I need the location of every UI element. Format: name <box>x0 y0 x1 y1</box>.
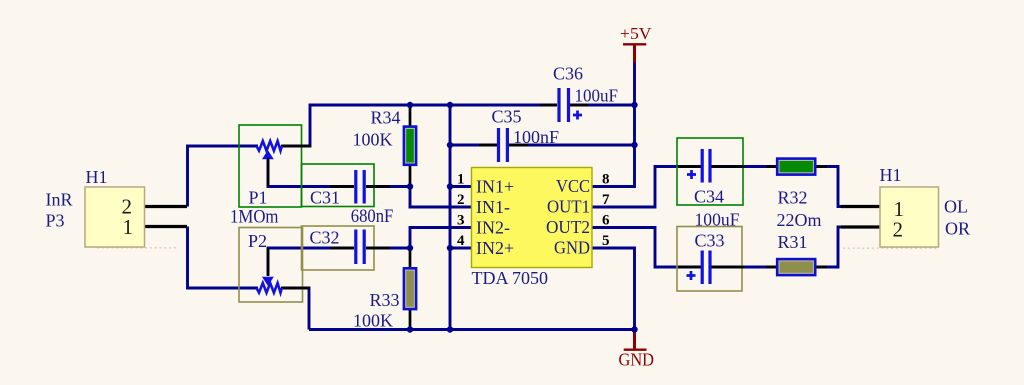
potentiometer P1 <box>239 125 311 208</box>
svg-text:GND: GND <box>619 349 655 369</box>
svg-text:2: 2 <box>457 192 465 208</box>
svg-text:6: 6 <box>602 213 610 229</box>
svg-text:R32: R32 <box>778 188 808 208</box>
svg-text:4: 4 <box>457 233 465 249</box>
junction node +5V C36 <box>631 102 637 108</box>
wire OUT2 to C33 <box>592 228 701 268</box>
svg-text:100K: 100K <box>353 130 393 150</box>
op-amp U1 TDA7050 <box>472 168 593 289</box>
svg-text:IN2+: IN2+ <box>476 238 514 258</box>
svg-text:R33: R33 <box>370 290 400 310</box>
wire wiper P2 to C32 <box>268 248 354 275</box>
svg-text:P3: P3 <box>46 211 65 231</box>
wire pin1 stub <box>450 185 472 188</box>
junction node rail R33 <box>407 326 413 332</box>
svg-text:100uF: 100uF <box>575 86 619 106</box>
svg-text:C35: C35 <box>492 107 522 127</box>
wire P2 right terminal down to bottom rail <box>282 288 309 330</box>
power +5V symbol <box>620 24 652 63</box>
capacitor C34 <box>677 138 744 207</box>
junction node top rail R34 <box>407 102 413 108</box>
wire OUT1 to C34 <box>592 167 701 208</box>
connector H1 right <box>841 165 939 247</box>
svg-text:IN1-: IN1- <box>476 197 510 217</box>
wire shadow dotted left <box>97 247 178 249</box>
resistor R33 <box>353 248 417 331</box>
svg-text:H1: H1 <box>86 167 108 187</box>
junction node C35 left <box>447 142 453 148</box>
wire C32 to IN2- jog <box>366 228 472 249</box>
svg-text:R31: R31 <box>778 232 808 252</box>
capacitor C35 <box>479 107 559 163</box>
wire pin4 stub <box>450 247 472 250</box>
wire bottom ground rail <box>309 328 635 331</box>
svg-text:C34: C34 <box>694 187 724 207</box>
wire C34 to R32 <box>712 165 777 168</box>
ground GND symbol <box>619 330 655 370</box>
wire ground vertical x450 <box>449 105 452 330</box>
svg-text:100K: 100K <box>353 311 393 331</box>
svg-text:P2: P2 <box>248 231 267 251</box>
svg-text:680nF: 680nF <box>351 206 394 227</box>
wire top rail right of C36 <box>570 104 635 107</box>
wire R31 to H1R pin2 <box>817 227 881 267</box>
potentiometer P2 <box>239 228 310 303</box>
wire GND pin5 to ground <box>592 248 635 330</box>
svg-text:1: 1 <box>457 172 465 188</box>
wire C35 row <box>450 144 635 147</box>
junction node C32 R33 <box>407 245 413 251</box>
junction node pin4 <box>447 245 453 251</box>
svg-text:OUT1: OUT1 <box>547 197 590 217</box>
svg-text:3: 3 <box>457 213 465 229</box>
svg-text:C33: C33 <box>695 231 725 251</box>
svg-text:5: 5 <box>602 233 610 249</box>
capacitor C32 <box>302 226 391 270</box>
svg-text:8: 8 <box>602 172 610 188</box>
svg-text:2: 2 <box>893 218 904 242</box>
svg-text:IN2-: IN2- <box>476 218 510 238</box>
svg-text:7: 7 <box>602 192 610 208</box>
svg-text:InR: InR <box>46 190 73 210</box>
wire +5V vertical to VCC <box>592 105 635 187</box>
svg-text:C36: C36 <box>553 64 583 84</box>
svg-text:1MOm: 1MOm <box>230 207 279 228</box>
svg-text:TDA 7050: TDA 7050 <box>472 268 549 288</box>
svg-text:IN1+: IN1+ <box>476 177 514 197</box>
resistor R34 <box>353 105 418 187</box>
svg-text:R34: R34 <box>371 108 401 128</box>
wire C33 to R31 <box>712 266 777 269</box>
capacitor C33 <box>677 227 744 292</box>
junction node top rail x450 <box>447 102 453 108</box>
svg-text:OL: OL <box>944 197 968 217</box>
svg-text:H1: H1 <box>880 165 902 185</box>
resistor R31 <box>766 232 827 276</box>
capacitor C36 <box>540 64 618 123</box>
junction node C31 R34 <box>407 183 413 189</box>
junction node pin1 <box>447 183 453 189</box>
svg-text:VCC: VCC <box>556 176 590 196</box>
svg-text:OUT2: OUT2 <box>546 217 590 237</box>
svg-text:C31: C31 <box>310 188 340 208</box>
junction node rail x450 <box>447 326 453 332</box>
svg-text:100nF: 100nF <box>513 127 559 147</box>
wire shadow dotted right <box>843 247 939 249</box>
wire H1L pin1 riser to P2 left <box>188 227 259 289</box>
svg-text:C32: C32 <box>310 228 340 248</box>
svg-text:OR: OR <box>945 219 970 239</box>
wire P1 right terminal up to top rail <box>282 105 557 146</box>
svg-text:1: 1 <box>123 215 134 239</box>
junction node rail GND <box>631 326 637 332</box>
wire H1L pin2 riser to P1 left <box>188 146 259 207</box>
junction node +5V C35 <box>631 142 637 148</box>
capacitor C31 <box>302 164 391 208</box>
wire R32 to H1R pin1 <box>817 167 881 207</box>
svg-text:+5V: +5V <box>620 24 652 43</box>
svg-text:GND: GND <box>554 238 590 258</box>
svg-text:P1: P1 <box>249 188 268 208</box>
wire C31 to IN1- jog <box>366 187 472 208</box>
wire wiper P1 to C31 <box>268 160 354 187</box>
resistor R32 <box>766 157 827 207</box>
svg-text:22Om: 22Om <box>777 210 822 230</box>
wire +5V drop <box>633 62 636 105</box>
connector H1 left (P3) <box>85 167 187 247</box>
